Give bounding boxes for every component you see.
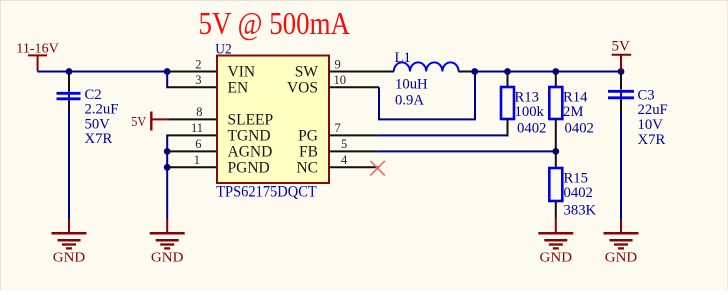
- wire VIN rail: [38, 71, 169, 73]
- svg-text:5V: 5V: [131, 115, 146, 130]
- svg-text:SLEEP: SLEEP: [228, 112, 274, 129]
- svg-text:11-16V: 11-16V: [16, 42, 59, 57]
- pin labels right: [287, 64, 318, 177]
- op-amp U2 body (TPS62175DQCT regulator): [217, 56, 329, 184]
- svg-text:10V: 10V: [638, 117, 664, 133]
- node junction R13: [504, 68, 511, 75]
- pin 8 SLEEP stub: [169, 118, 217, 120]
- svg-text:U2: U2: [215, 41, 232, 57]
- svg-text:4: 4: [341, 153, 348, 167]
- svg-text:50V: 50V: [85, 116, 111, 132]
- pin 1 PGND stub: [166, 166, 217, 168]
- power port 5V (output): [612, 38, 632, 71]
- ground GND (C3): [604, 219, 639, 266]
- svg-text:22uF: 22uF: [638, 102, 668, 118]
- node junction C2/VIN: [66, 68, 73, 75]
- svg-text:X7R: X7R: [638, 132, 666, 148]
- wire EN branch vertical: [166, 72, 168, 88]
- svg-text:1: 1: [194, 153, 200, 167]
- svg-text:0.9A: 0.9A: [395, 93, 424, 109]
- svg-text:383K: 383K: [564, 203, 597, 219]
- ground GND (C2): [52, 219, 87, 266]
- svg-text:3: 3: [195, 73, 201, 87]
- svg-text:10: 10: [334, 73, 347, 87]
- svg-text:TPS62175DQCT: TPS62175DQCT: [216, 183, 317, 200]
- inductor L1: [394, 62, 459, 71]
- pin 4 NC stub: [329, 166, 379, 168]
- svg-text:0402: 0402: [565, 120, 594, 136]
- svg-text:TGND: TGND: [228, 128, 271, 145]
- ground GND (R15): [538, 218, 573, 266]
- node junction PGND: [164, 164, 171, 171]
- svg-text:7: 7: [335, 121, 341, 135]
- svg-text:NC: NC: [296, 160, 318, 177]
- svg-text:5V: 5V: [612, 38, 631, 54]
- svg-text:8: 8: [196, 105, 202, 119]
- R14 labels: [563, 89, 594, 136]
- pin 10 VOS stub: [329, 86, 379, 88]
- svg-text:11: 11: [191, 121, 203, 135]
- svg-text:10uH: 10uH: [395, 77, 428, 93]
- svg-text:EN: EN: [228, 80, 249, 97]
- resistor R14: [549, 72, 562, 152]
- power port 5V (SLEEP): [131, 112, 169, 131]
- svg-text:PGND: PGND: [228, 160, 270, 177]
- svg-text:2.2uF: 2.2uF: [85, 102, 119, 118]
- node junction EN branch: [164, 68, 171, 75]
- svg-text:AGND: AGND: [228, 144, 273, 161]
- svg-text:FB: FB: [299, 144, 318, 161]
- svg-text:SW: SW: [295, 64, 319, 81]
- svg-text:L1: L1: [395, 50, 411, 66]
- capacitor C3: [608, 72, 634, 113]
- wire VOS sense path: [379, 72, 475, 120]
- svg-text:6: 6: [195, 137, 201, 151]
- wire 5V output rail: [475, 71, 621, 73]
- C2 value labels: [85, 87, 119, 147]
- C3 labels: [638, 87, 668, 148]
- wire C3 to ground: [620, 112, 622, 219]
- svg-text:5V @ 500mA: 5V @ 500mA: [199, 5, 351, 41]
- pin numbers left: [191, 57, 203, 167]
- svg-text:C3: C3: [638, 87, 655, 103]
- svg-text:VOS: VOS: [287, 80, 318, 97]
- node junction L1/VOS: [471, 68, 478, 75]
- power port 11-16V: [16, 42, 59, 72]
- pin 9 SW stub: [329, 71, 394, 73]
- svg-text:GND: GND: [53, 251, 86, 266]
- svg-text:100k: 100k: [515, 104, 545, 120]
- svg-text:VIN: VIN: [228, 64, 256, 81]
- svg-text:PG: PG: [298, 128, 318, 145]
- svg-text:9: 9: [335, 57, 341, 71]
- pin labels left: [228, 64, 274, 177]
- capacitor C2: [57, 72, 81, 111]
- node junction R14: [552, 68, 559, 75]
- node junction C3/5V: [618, 68, 625, 75]
- pin 7 PG stub: [329, 134, 377, 136]
- node junction FB/R14/R15: [552, 148, 559, 155]
- pin 6 AGND stub: [166, 150, 217, 152]
- svg-text:GND: GND: [151, 251, 184, 266]
- no-connect X on NC: [370, 161, 385, 176]
- pin 2 VIN stub: [168, 71, 217, 73]
- pin 11 TGND stub: [166, 134, 217, 136]
- pin 3 EN stub: [166, 86, 217, 88]
- L1 labels: [395, 50, 429, 109]
- svg-text:0402: 0402: [517, 120, 546, 136]
- svg-text:C2: C2: [85, 87, 102, 103]
- svg-text:0402: 0402: [564, 185, 593, 201]
- svg-text:2: 2: [195, 57, 201, 71]
- node junction AGND: [164, 148, 171, 155]
- svg-text:GND: GND: [605, 251, 638, 266]
- wire L1 out: [458, 71, 474, 73]
- wire FB to divider: [377, 150, 556, 152]
- svg-text:GND: GND: [540, 251, 573, 266]
- svg-text:5: 5: [341, 137, 347, 151]
- resistor R13: [501, 72, 514, 137]
- svg-text:R15: R15: [564, 170, 588, 186]
- svg-text:2M: 2M: [563, 104, 583, 120]
- wire TGND/AGND/PGND vertical to ground: [166, 135, 168, 219]
- wire PG to R13: [377, 134, 508, 136]
- pin numbers right: [334, 57, 349, 167]
- R13 labels: [515, 89, 547, 136]
- ground GND (chip): [150, 219, 185, 266]
- pin 5 FB stub: [329, 150, 377, 152]
- resistor R15: [549, 151, 562, 218]
- wire C2 to ground: [68, 110, 70, 219]
- R15 labels: [564, 170, 597, 218]
- svg-text:X7R: X7R: [85, 131, 113, 147]
